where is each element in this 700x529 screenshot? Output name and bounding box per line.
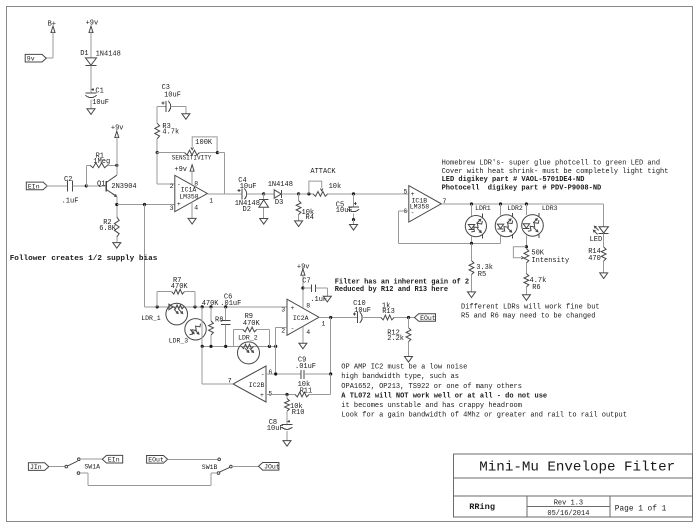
svg-text:R11: R11 <box>300 388 313 396</box>
wire IC1A pin8 <box>191 170 193 185</box>
node LDR1 bottom <box>470 242 473 245</box>
LED <box>590 226 609 244</box>
ground (R12) <box>405 357 413 363</box>
ground (R5) <box>468 292 476 298</box>
wire IC2A pin4 <box>302 326 304 343</box>
svg-text:it becomes unstable and has cr: it becomes unstable and has crappy headr… <box>341 402 522 410</box>
wire SW1A to EIn tag <box>80 458 102 460</box>
capacitor C6 .01uF <box>221 307 230 347</box>
svg-text:1N4148: 1N4148 <box>96 51 121 59</box>
wire IC2B pin5 <box>266 394 295 396</box>
op-amp IC1A LM358 <box>175 175 208 211</box>
resistor R3 4.7k <box>155 123 179 139</box>
tag EIn <box>26 182 47 190</box>
note homebrew line4 <box>442 185 602 193</box>
power +9v (Q1) <box>111 125 124 138</box>
vactrol LDR2 <box>495 205 523 238</box>
svg-text:R4: R4 <box>306 214 314 222</box>
ground (C8) <box>283 441 291 447</box>
vactrol LDR3 <box>522 205 558 238</box>
diode D2 1N4148 <box>235 194 269 219</box>
wire LDR2 bottom lead <box>500 236 502 243</box>
op-amp IC2A <box>287 299 319 335</box>
title block box <box>454 454 693 517</box>
svg-text:10uF: 10uF <box>240 183 257 191</box>
ground (C7) <box>323 296 331 302</box>
IC1B pin 7 <box>443 198 447 205</box>
svg-text:470: 470 <box>588 255 601 263</box>
wire IC2B pin6 <box>266 373 301 375</box>
wire C5 to ground <box>353 220 355 225</box>
svg-text:Look for a gain bandwidth of 4: Look for a gain bandwidth of 4Mhz or gre… <box>341 411 627 419</box>
svg-text:10uF: 10uF <box>92 99 109 107</box>
ground (IC1A pin4) <box>188 218 196 224</box>
switch SW1A <box>65 458 100 475</box>
wire LDR1 top lead <box>471 204 473 216</box>
capacitor C7 .1uF <box>302 277 327 304</box>
IC2B pin 5 <box>268 390 272 397</box>
svg-text:470K: 470K <box>202 300 220 308</box>
wire LDR3 top lead <box>525 204 527 215</box>
svg-text:+9v: +9v <box>86 19 99 27</box>
ground (C3) <box>182 114 190 120</box>
IC2B pin 7 <box>228 377 232 384</box>
capacitor C10 10uF <box>353 300 371 323</box>
svg-text:2.2k: 2.2k <box>387 335 404 343</box>
svg-text:SENSITIVITY: SENSITIVITY <box>172 155 212 162</box>
svg-text:Different LDRs will work fine: Different LDRs will work fine but <box>461 304 600 312</box>
ground (R2) <box>113 243 121 249</box>
svg-text:D1: D1 <box>80 50 88 58</box>
wire bypass <box>80 473 217 485</box>
resistor R1 1Meg <box>86 153 117 168</box>
svg-text:3: 3 <box>281 307 285 314</box>
capacitor C4 10uF <box>238 177 257 199</box>
wire R3 top <box>156 139 158 153</box>
wire C9 right <box>304 373 331 375</box>
wire base node to Q1 <box>86 185 106 187</box>
node LDR2 top <box>499 202 502 205</box>
svg-text:IC1A: IC1A <box>181 186 197 193</box>
vactrol LDR1 <box>465 205 491 239</box>
svg-text:1: 1 <box>322 321 326 328</box>
note gain line1 <box>335 278 469 286</box>
node collector/R1 <box>115 164 118 167</box>
resistor R6 4.7k <box>524 263 546 295</box>
svg-text:Page 1 of 1: Page 1 of 1 <box>615 506 667 514</box>
label R8 value <box>202 300 220 308</box>
svg-text:Homebrew LDR's- super glue pho: Homebrew LDR's- super glue photcell to g… <box>442 159 660 167</box>
wire IC1A pin4 <box>191 202 193 218</box>
svg-text:EIn: EIn <box>108 457 120 464</box>
title rev <box>554 500 583 508</box>
svg-text:D2: D2 <box>243 206 251 214</box>
svg-text:470K: 470K <box>243 320 261 328</box>
resistor R12 2.2k <box>387 318 411 357</box>
svg-text:470K: 470K <box>171 283 189 291</box>
node C5 bottom <box>352 218 355 221</box>
wire LDR1 bottom lead <box>471 236 473 243</box>
svg-text:5: 5 <box>268 390 272 397</box>
svg-text:R5: R5 <box>478 271 486 279</box>
svg-text:high bandwidth type, such as: high bandwidth type, such as <box>341 373 459 381</box>
node intensity top <box>525 245 528 248</box>
wire IC1A output <box>207 193 242 195</box>
wire IC2A pin2 <box>276 328 287 347</box>
svg-text:4.7k: 4.7k <box>162 129 179 137</box>
capacitor C5 10uF <box>336 194 359 215</box>
node filter C <box>201 305 204 308</box>
resistor R10 10k <box>285 395 305 424</box>
resistor R4 10k <box>296 194 314 222</box>
svg-text:Q1: Q1 <box>97 180 105 188</box>
svg-text:LM358: LM358 <box>410 204 430 211</box>
svg-text:6: 6 <box>268 369 272 376</box>
ground (IC2A pin4) <box>299 343 307 349</box>
node emitter <box>115 203 118 206</box>
node R10 top <box>285 393 288 396</box>
title text <box>479 460 675 476</box>
svg-text:R10: R10 <box>292 409 305 417</box>
note opamp line1 <box>341 363 467 371</box>
svg-text:9v: 9v <box>27 56 35 63</box>
node D2 <box>262 192 265 195</box>
svg-text:LDR_3: LDR_3 <box>169 338 189 345</box>
svg-text:B+: B+ <box>48 21 56 29</box>
wire C3 to ground <box>171 106 186 113</box>
wire +9v to D1 <box>90 32 92 58</box>
svg-text:LDR1: LDR1 <box>475 205 491 212</box>
wire IC2A output <box>319 317 357 319</box>
diode D1 1N4148 <box>80 50 121 66</box>
svg-text:EIn: EIn <box>28 183 40 190</box>
svg-text:LM358: LM358 <box>179 193 199 200</box>
note ldrs line2 <box>461 312 595 320</box>
IC1B pin 5 <box>404 189 408 196</box>
IC1A pin 2 <box>170 183 174 190</box>
resistor R14 470 <box>588 247 606 273</box>
svg-text:10uF: 10uF <box>336 207 353 215</box>
wire C5 bottom <box>353 214 355 220</box>
wire LDR_3 lead <box>201 307 203 347</box>
svg-text:1: 1 <box>209 198 213 205</box>
capacitor C1 10uF <box>86 87 110 107</box>
svg-text:Cover with heat shrink- must b: Cover with heat shrink- must be complete… <box>442 168 669 176</box>
svg-text:4: 4 <box>194 205 198 212</box>
svg-text:1N4148: 1N4148 <box>268 181 293 189</box>
resistor R9 470K <box>233 313 269 346</box>
note opamp line2 <box>341 373 459 381</box>
IC2A pin 8 <box>306 302 310 309</box>
note homebrew line3 <box>442 176 585 184</box>
svg-text:OP AMP IC2 must be a low noise: OP AMP IC2 must be a low noise <box>341 363 467 371</box>
node R4 <box>297 192 300 195</box>
power B+ <box>48 21 56 33</box>
wire LDR3 bottom lead <box>525 236 527 247</box>
op-amp IC2B <box>233 366 266 402</box>
node bottom A <box>201 345 204 348</box>
note gain line2 <box>335 286 448 294</box>
node base (junction) <box>85 184 88 187</box>
note opamp line3 <box>341 383 522 391</box>
node filter B <box>193 305 196 308</box>
label C6 <box>224 294 232 302</box>
svg-text:IC2A: IC2A <box>293 315 309 322</box>
svg-text:-: - <box>291 326 295 333</box>
svg-text:4: 4 <box>306 329 310 336</box>
potentiometer ATTACK 10k <box>309 168 341 196</box>
resistor R7 470K <box>157 277 195 307</box>
wire C1 to ground <box>90 99 92 109</box>
svg-text:+9v: +9v <box>297 263 310 271</box>
svg-text:RRing: RRing <box>469 502 495 512</box>
note ldrs line1 <box>461 304 600 312</box>
svg-text:Reduced by R12 and R13 here: Reduced by R12 and R13 here <box>335 286 448 294</box>
ground (C5) <box>350 225 358 231</box>
IC1A pin 1 <box>209 198 213 205</box>
svg-text:3: 3 <box>170 205 174 212</box>
node C9/R11 <box>329 372 332 375</box>
svg-text:.01uF: .01uF <box>220 300 241 308</box>
node bottom C <box>224 345 227 348</box>
IC2A pin 3 <box>281 307 285 314</box>
svg-text:10uF: 10uF <box>267 425 284 433</box>
svg-text:10k: 10k <box>329 183 342 191</box>
op-amp IC1B LM358 <box>409 186 442 222</box>
wire D1 to C1 <box>90 66 92 93</box>
svg-text:.1uF: .1uF <box>310 296 327 304</box>
node filter E <box>224 305 227 308</box>
wire C8 to ground <box>286 431 288 441</box>
title date <box>547 510 589 518</box>
ground (C1) <box>87 109 95 115</box>
IC2A pin 2 <box>281 327 285 334</box>
resistor R11 10k <box>295 381 331 397</box>
svg-text:+: + <box>260 392 264 399</box>
wire pin2 path <box>157 153 175 184</box>
svg-text:6.8K: 6.8K <box>99 225 117 233</box>
svg-text:1Meg: 1Meg <box>93 158 110 166</box>
svg-text:EOut: EOut <box>420 315 436 322</box>
IC1B pin 6 <box>404 208 408 215</box>
wire R3 to C3 <box>157 106 166 123</box>
wire IC1B output <box>441 203 603 205</box>
wire LDR2 top lead <box>500 204 502 215</box>
wire output feedback riser <box>330 318 332 375</box>
svg-text:10uF: 10uF <box>164 91 181 99</box>
svg-text:Photocell digikey part # PDV-: Photocell digikey part # PDV-P9008-ND <box>442 185 602 193</box>
IC1A pin 8 <box>194 180 198 187</box>
svg-text:C1: C1 <box>95 87 103 95</box>
svg-text:5: 5 <box>404 189 408 196</box>
svg-text:2: 2 <box>170 183 174 190</box>
svg-text:+: + <box>291 305 295 312</box>
svg-text:Rev 1.3: Rev 1.3 <box>554 500 583 508</box>
vactrol LDR_1 <box>141 303 187 325</box>
wire EIn to C2 <box>47 185 68 187</box>
capacitor C2 .1uF <box>62 176 79 205</box>
potentiometer 50K Intensity <box>513 247 569 265</box>
node filter D <box>209 305 212 308</box>
ground (R6) <box>522 295 530 301</box>
note homebrew line1 <box>442 159 660 167</box>
resistor R13 1k <box>381 302 395 320</box>
IC1A pin 4 <box>194 205 198 212</box>
ground (D2) <box>260 219 268 225</box>
svg-text:+: + <box>177 201 181 208</box>
tag JIn <box>28 463 48 471</box>
svg-text:JOut: JOut <box>264 464 280 471</box>
svg-text:Follower creates 1/2 supply bi: Follower creates 1/2 supply bias <box>10 255 158 263</box>
wire collector to +9v <box>116 137 118 176</box>
node bias tee <box>143 203 146 206</box>
svg-text:LED digikey part # VAOL-5701DE: LED digikey part # VAOL-5701DE4-ND <box>442 176 585 184</box>
wire JIn to SW1A <box>49 466 65 468</box>
ground (R14) <box>600 273 608 279</box>
power +9v (IC2A) <box>297 263 310 275</box>
node C7 <box>301 286 304 289</box>
capacitor C9 .01uF <box>295 357 316 380</box>
diode D3 1N4148 <box>268 181 293 207</box>
IC2A pin 4 <box>306 329 310 336</box>
wire R4 node to ATTACK <box>299 193 314 195</box>
wire R2 to ground <box>116 237 118 243</box>
power +9v (IC1A) <box>174 165 194 174</box>
node output <box>329 316 332 319</box>
svg-text:Mini-Mu Envelope Filter: Mini-Mu Envelope Filter <box>479 460 675 476</box>
wire C10 to R13 <box>362 317 381 319</box>
node bottom B <box>209 345 212 348</box>
wire B+ to 9v tag <box>46 32 53 59</box>
svg-text:R5 and R6 may need to be chang: R5 and R6 may need to be changed <box>461 312 595 320</box>
svg-text:100K: 100K <box>195 139 213 147</box>
svg-text:LDR_2: LDR_2 <box>238 335 258 342</box>
tag 9v <box>25 54 46 62</box>
svg-text:EOut: EOut <box>148 457 164 464</box>
capacitor C3 10uF <box>162 84 181 112</box>
wire LED to R14 <box>603 233 605 247</box>
svg-text:.01uF: .01uF <box>295 363 316 371</box>
resistor R5 3.3k <box>469 243 493 292</box>
svg-text:R13: R13 <box>382 308 395 316</box>
svg-text:05/16/2014: 05/16/2014 <box>547 510 589 518</box>
wire filter top <box>157 306 287 308</box>
IC1A pin 3 <box>170 205 174 212</box>
node R3/pot <box>156 151 159 154</box>
wire feedback riser <box>217 153 224 194</box>
capacitor C8 10uF <box>267 411 293 433</box>
wire IC2A pin8 <box>302 274 304 308</box>
wire SW1B to JOut <box>232 466 258 468</box>
wire LED branch <box>603 204 605 227</box>
node LDR1 top <box>470 202 473 205</box>
node EOut <box>407 316 410 319</box>
note follower <box>10 255 158 263</box>
wire D3 to R4 node <box>282 193 299 195</box>
ground (R4) <box>295 221 303 227</box>
svg-text:.1uF: .1uF <box>62 197 79 205</box>
svg-text:SW1A: SW1A <box>84 464 100 471</box>
svg-text:LED: LED <box>590 236 603 244</box>
svg-text:10uF: 10uF <box>354 307 371 315</box>
node filter A <box>156 305 159 308</box>
note opamp line6 <box>341 411 627 419</box>
svg-text:+9v: +9v <box>111 125 124 133</box>
resistor R8 470K <box>209 307 224 347</box>
IC2B pin 6 <box>268 369 272 376</box>
svg-text:7: 7 <box>228 377 232 384</box>
svg-text:LDR_1: LDR_1 <box>141 315 161 322</box>
svg-text:R6: R6 <box>532 284 540 292</box>
title page <box>615 506 667 514</box>
title author <box>469 502 495 512</box>
svg-text:2: 2 <box>281 327 285 334</box>
svg-text:C7: C7 <box>302 277 310 285</box>
label C6 value <box>220 300 241 308</box>
svg-text:LDR3: LDR3 <box>542 205 558 212</box>
wire C9 node down <box>330 374 332 395</box>
transistor Q1 2N3904 <box>97 175 137 196</box>
vactrol LDR_2 <box>238 335 260 364</box>
note opamp line4 <box>341 393 547 401</box>
wire emitter <box>116 196 118 217</box>
svg-text:LDR2: LDR2 <box>507 205 523 212</box>
svg-text:SW1B: SW1B <box>202 464 218 471</box>
tag EOut (switch) <box>147 456 168 464</box>
wire base node up to R1 <box>85 165 87 186</box>
node pot/feedback <box>216 151 219 154</box>
node bottom D <box>268 345 271 348</box>
node pin6 <box>274 372 277 375</box>
wire D2 node to D3 <box>264 193 275 195</box>
svg-text:A TL072 will NOT work well or: A TL072 will NOT work well or at all - d… <box>341 393 547 401</box>
tag JOut <box>259 463 280 471</box>
vactrol LDR_3 <box>169 319 207 345</box>
node bottom E <box>274 345 277 348</box>
resistor R2 6.8K <box>99 217 119 237</box>
wire IC2B output loop <box>202 346 233 384</box>
IC2A pin 1 <box>322 321 326 328</box>
wire R13 to EOut node <box>394 317 415 319</box>
note opamp line5 <box>341 402 522 410</box>
svg-text:2N3904: 2N3904 <box>111 183 136 191</box>
svg-text:-: - <box>261 371 265 378</box>
svg-text:ATTACK: ATTACK <box>310 168 336 176</box>
svg-text:C2: C2 <box>64 176 72 184</box>
tag EOut (filter out) <box>415 314 436 322</box>
power +9v (D1) <box>86 19 99 32</box>
wire filter bottom <box>202 345 276 347</box>
potentiometer SENSITIVITY 100K <box>157 137 217 162</box>
node ATTACK left <box>307 192 310 195</box>
note homebrew line2 <box>442 168 669 176</box>
wire C4 to D2 node <box>247 193 264 195</box>
wire emitter node to IC1A pin3 <box>117 204 175 206</box>
node C5 <box>352 192 355 195</box>
svg-text:OPA1652, OP213, TS922 or one o: OPA1652, OP213, TS922 or one of many oth… <box>341 383 522 391</box>
node LDR3 top <box>525 202 528 205</box>
wire EOut tag to SW1B <box>168 458 218 460</box>
svg-text:IC2B: IC2B <box>249 382 265 389</box>
wire C2 to base node <box>72 185 86 187</box>
wire pin2 riser to pin6 <box>275 346 277 374</box>
svg-text:8: 8 <box>194 180 198 187</box>
wire IC1B pin6 loop <box>399 211 501 243</box>
switch SW1B <box>202 458 232 474</box>
svg-text:+9v: +9v <box>174 166 187 174</box>
tag EIn (switch) <box>102 455 122 463</box>
wire bias vertical <box>145 205 158 307</box>
